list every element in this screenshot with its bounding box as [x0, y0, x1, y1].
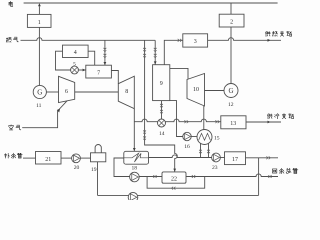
svg-text:1: 1	[38, 20, 41, 26]
wire: hot water line valve14 to box13	[166, 119, 221, 122]
flow marks on hot water line	[184, 120, 188, 123]
HRSG box 9	[153, 65, 170, 101]
wire: shaft G1 to compressor 6	[46, 91, 58, 93]
box 22	[162, 172, 186, 183]
svg-text:20: 20	[74, 165, 80, 171]
pump 16	[183, 132, 191, 140]
arrow on air inlet	[57, 109, 60, 113]
box 2	[219, 14, 244, 27]
wire: shaft turbine10 to G2	[205, 90, 225, 92]
arrow into box9 top	[154, 61, 157, 64]
box 4	[63, 45, 89, 57]
arrow into box7 top	[104, 62, 107, 65]
wire: box4 left loop to valve5	[56, 51, 71, 70]
generator G1 (11)	[33, 85, 46, 98]
wire: pump20 to vessel19	[80, 157, 90, 159]
svg-text:15: 15	[214, 135, 220, 141]
box 1 rectifier	[27, 14, 51, 27]
wire: vessel19 down to bottom main	[97, 162, 99, 196]
flow marks on gas drop x=144.6	[143, 48, 146, 52]
svg-text:3: 3	[194, 39, 197, 45]
wire: box9 top up and right to box3	[164, 40, 183, 64]
wire: chiller15 right leg down	[208, 143, 210, 157]
svg-text:G: G	[228, 87, 233, 95]
heat exchanger box 18	[124, 151, 149, 164]
svg-text:5: 5	[73, 61, 76, 67]
wire: chiller15 left leg down	[200, 143, 202, 157]
flow marks on gas drop x=104.9	[104, 48, 107, 52]
svg-text:7: 7	[97, 70, 100, 76]
arrow into box18 top	[133, 148, 136, 151]
wire: grid power line (dian)	[24, 2, 278, 4]
wire: heating branch from box3 with hop over G2 wire	[208, 38, 281, 41]
flow marks above valve14	[160, 104, 163, 108]
arrow on heating branch	[268, 39, 271, 42]
wire: box22 right to return main with hop	[186, 174, 278, 177]
wire: shaft compressor 6 to turbine 8	[75, 91, 119, 93]
wire: chilled water line box18 to pump23 with hop	[149, 155, 212, 158]
label gongleng zhilu (cooling branch)	[267, 114, 272, 119]
wire: gas drop to combustor 7	[104, 40, 106, 65]
deaerator vessel 19	[95, 145, 101, 153]
wire: valve5 to box7 with arrow	[78, 69, 85, 71]
wire: box9 bottom down to valve14	[161, 101, 163, 119]
wire: box21 to pump20	[61, 157, 72, 159]
pump 23	[212, 153, 221, 162]
wire: turbine 8 exhaust down to box18 (crosses hot water line)	[133, 109, 135, 152]
label ranqi (gas)	[6, 38, 11, 43]
svg-text:17: 17	[232, 157, 238, 163]
flow marks pumpA-box22	[153, 175, 157, 178]
box 13	[221, 116, 246, 129]
wire: power line down to box2	[230, 3, 232, 14]
wire: pump23 to box17	[220, 157, 224, 159]
svg-text:16: 16	[184, 144, 190, 150]
wire: box1 down to generator G1 (crosses gas line)	[38, 27, 40, 85]
svg-text:14: 14	[159, 131, 165, 137]
svg-text:12: 12	[228, 102, 234, 108]
flow marks on bypass loop	[172, 187, 176, 190]
combustor box 7	[86, 65, 112, 78]
wire: hot water line to box13 with hops	[134, 119, 157, 122]
label dian (electricity)	[9, 1, 13, 6]
pump 20	[72, 154, 81, 163]
box 17	[225, 152, 246, 165]
absorption chiller 15	[197, 130, 212, 145]
wire: box17 right to supply end	[246, 157, 279, 159]
wire: bottom return main	[98, 194, 259, 196]
pump A below box18	[130, 172, 140, 182]
svg-text:8: 8	[125, 89, 128, 95]
svg-text:22: 22	[171, 177, 177, 183]
wire: box2 down to generator G2	[230, 27, 232, 84]
arrow on cooling branch	[268, 121, 271, 124]
svg-text:23: 23	[212, 165, 218, 171]
pump B on bottom main	[128, 192, 138, 202]
wire: steam line box9 to turbine 10	[170, 68, 188, 79]
label gongre zhilu (heating branch)	[265, 31, 270, 36]
svg-text:G: G	[37, 89, 42, 97]
wire: gas main line with hop over box1-G1 wire	[21, 38, 156, 41]
box 3	[183, 34, 208, 47]
wire: turbine10 exhaust down into chiller15	[203, 106, 205, 130]
svg-text:19: 19	[91, 167, 97, 173]
wire: air inlet line	[22, 101, 67, 128]
wire: box1 to power line	[38, 6, 40, 14]
label kongqi (air)	[9, 125, 14, 130]
wire: bypass loop under box22	[147, 177, 205, 189]
wire: cooling branch from box13	[246, 121, 281, 123]
flow marks before box3	[178, 39, 182, 42]
up arrows on chiller legs	[199, 149, 202, 153]
turbine 8	[118, 76, 134, 109]
svg-text:2: 2	[230, 19, 233, 25]
flow marks on return line	[191, 175, 195, 178]
svg-text:18: 18	[132, 166, 138, 172]
wire: box9 corner down to pump16 (crosses hot water line)	[170, 101, 183, 137]
compressor 6	[59, 76, 75, 102]
wire: box4 right down into box7 top	[88, 51, 95, 65]
wire: makeup water line	[23, 157, 36, 159]
wire: box18 left loop down to pumpA	[114, 158, 130, 177]
wire: gas feed into HRSG 9 top	[154, 40, 156, 64]
wire: pumpA to box22	[139, 176, 162, 178]
svg-text:9: 9	[160, 81, 163, 87]
generator G2 (12)	[224, 84, 238, 98]
box 21	[36, 152, 62, 165]
valve 14	[158, 119, 166, 127]
wire: combustor 7 outlet to turbine 8	[111, 71, 118, 84]
svg-text:13: 13	[230, 121, 236, 127]
steam turbine 10	[187, 74, 205, 107]
wire: supply-return riser x=258.6	[258, 158, 260, 196]
wire: pump16 to chiller15	[191, 136, 197, 138]
svg-text:6: 6	[65, 89, 68, 95]
arrow up into power line at x=39.4	[38, 3, 41, 6]
label bushuiguan (makeup water pipe)	[4, 153, 9, 158]
svg-text:21: 21	[45, 157, 51, 163]
flow marks after box17	[266, 156, 270, 159]
valve 5	[71, 66, 79, 74]
arrow into box22 top	[173, 169, 176, 172]
svg-text:10: 10	[193, 87, 199, 93]
flow marks on gas drop x=155.2	[154, 48, 157, 52]
svg-text:4: 4	[74, 50, 77, 56]
wire: gas drop x=144.6 down, turn right, down into box22	[145, 40, 175, 146]
svg-text:11: 11	[36, 103, 42, 109]
label huishui zongguan (return water main)	[273, 169, 277, 173]
